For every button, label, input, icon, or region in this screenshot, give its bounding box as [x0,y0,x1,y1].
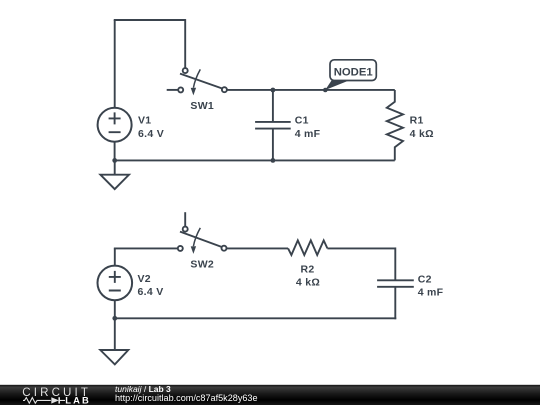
C2 bottom plate [377,286,414,288]
junction V2 bottom [112,316,117,321]
wire C2 bottom lead [394,287,396,319]
SW2 arrow [193,228,200,246]
ground (circuit 2) [100,318,128,364]
SW1 blade [180,74,222,89]
svg-text:6.4 V: 6.4 V [138,128,164,140]
svg-text:C1: C1 [295,115,309,127]
svg-text:V1: V1 [138,115,151,127]
SW1 top terminal [183,68,188,73]
wire C2 top lead [394,247,396,280]
wire bottom of circuit 1 [115,159,395,161]
wire V1 top to top-left corner [114,20,116,108]
wire SW1 to R1 top [227,89,395,91]
SW2 top terminal [183,227,188,232]
wire C1 bottom lead [272,129,274,161]
wire to ground [114,318,116,350]
wire bottom of circuit 2 [115,317,396,319]
wire to ground [114,160,116,174]
wire C1 top lead [272,90,274,122]
junction C1 top [271,88,276,93]
voltage source V1 [98,108,164,161]
SW2 blade [180,232,222,247]
wire SW2 to R2 [226,247,288,249]
switch SW2 [178,212,227,270]
svg-text:4 kΩ: 4 kΩ [296,277,320,289]
SW2 right terminal [222,246,227,251]
SW2 left terminal [178,246,183,251]
wire V2 to SW2 left [114,247,178,249]
C1 bottom plate [255,128,291,130]
svg-text:C2: C2 [418,273,432,285]
resistor R1 [387,90,434,160]
SW1 right terminal [222,87,227,92]
SW1 arrow [193,69,200,87]
node NODE1 flag [325,60,376,90]
svg-text:http://circuitlab.com/c87af5k2: http://circuitlab.com/c87af5k28y63e [115,393,258,403]
svg-text:4 kΩ: 4 kΩ [410,128,434,140]
capacitor C2 [377,273,444,319]
C1 top plate [255,121,291,123]
logo diode [51,397,59,403]
ground (circuit 1) [100,160,129,189]
svg-text:R1: R1 [410,115,424,127]
node dot NODE1 [323,88,328,93]
resistor R2 [288,240,327,288]
svg-text:V2: V2 [138,273,151,285]
wire SW2 top stub [184,212,186,227]
R2 zigzag [288,240,327,255]
wire SW1 left stub [167,89,179,91]
svg-text:4 mF: 4 mF [295,128,321,140]
voltage source V2 [98,266,164,319]
wire V1 bottom lead [114,142,116,161]
svg-text:4 mF: 4 mF [418,287,444,299]
wire down to SW1 top terminal [184,19,186,68]
R1 zigzag [387,90,403,160]
svg-text:SW2: SW2 [190,259,214,271]
wire top horizontal [114,19,185,21]
capacitor C1 [255,90,321,160]
CircuitLab logo [22,386,91,405]
wire V2 bottom lead [114,300,116,318]
logo resistor zigzag [23,398,65,404]
svg-text:LAB: LAB [65,394,91,405]
C2 top plate [377,279,414,281]
junction V1 bottom [112,158,117,163]
svg-text:R2: R2 [300,263,314,275]
svg-text:SW1: SW1 [190,100,214,112]
wire V2 top lead [114,248,116,265]
switch SW1 [167,68,227,112]
wire R2 to C2 corner [327,247,395,249]
svg-text:6.4 V: 6.4 V [138,286,164,298]
svg-text:NODE1: NODE1 [334,66,373,78]
SW1 left terminal [178,87,183,92]
footer bar [0,385,540,405]
junction C1 bottom [271,158,276,163]
